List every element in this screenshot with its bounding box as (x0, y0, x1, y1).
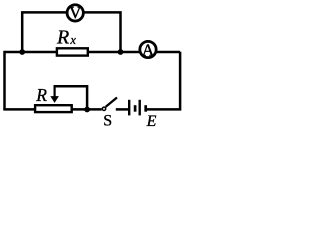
svg-text:E: E (146, 113, 157, 130)
svg-text:R: R (35, 85, 47, 105)
svg-text:R: R (56, 27, 69, 49)
svg-text:x: x (69, 33, 76, 47)
svg-text:V: V (69, 3, 82, 22)
svg-text:A: A (142, 40, 155, 59)
svg-text:S: S (103, 112, 112, 129)
